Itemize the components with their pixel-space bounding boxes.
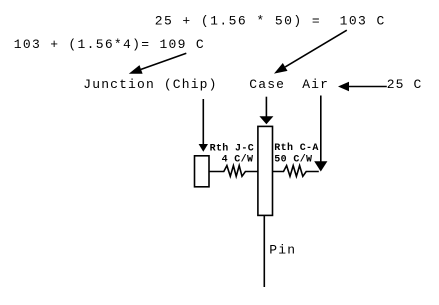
svg-text:25 C: 25 C — [387, 77, 423, 92]
chip block (junction) — [195, 156, 210, 187]
svg-text:Junction (Chip): Junction (Chip) — [83, 77, 217, 92]
svg-text:Rth C-A: Rth C-A — [274, 142, 318, 154]
svg-text:Air: Air — [302, 77, 329, 92]
wire: junction node vertical arrow down to chip block — [202, 99, 204, 145]
svg-text:Rth J-C: Rth J-C — [210, 143, 254, 155]
wire: arrow from 109 C equation to Junction label — [141, 53, 186, 69]
wire: arrow from 103 C result to Case label — [285, 30, 347, 67]
svg-text:Case: Case — [249, 77, 285, 92]
wire: air node vertical arrow down to Rth C-A output — [320, 96, 322, 163]
wire: case node vertical arrow down to case body — [265, 97, 267, 118]
wire: arrow from 25 C to Air label — [349, 86, 387, 88]
svg-text:4 C/W: 4 C/W — [222, 154, 254, 166]
resistor Rth C-A (zigzag from case body to air node) — [273, 166, 319, 177]
resistor Rth J-C (zigzag between chip block and case body) — [209, 166, 258, 177]
svg-text:Pin: Pin — [269, 243, 296, 258]
svg-text:25 + (1.56 * 50) = 103 C: 25 + (1.56 * 50) = 103 C — [155, 13, 386, 28]
svg-text:103 + (1.56*4)= 109 C: 103 + (1.56*4)= 109 C — [14, 37, 205, 52]
wire: pin lead from case body bottom — [263, 216, 265, 288]
case body (package) — [258, 126, 273, 215]
